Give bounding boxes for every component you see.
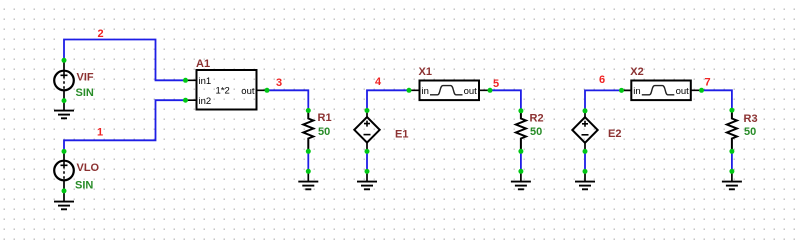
svg-text:R1: R1 [318, 112, 332, 124]
svg-text:out: out [464, 86, 478, 97]
svg-text:7: 7 [705, 76, 711, 88]
svg-text:R2: R2 [530, 113, 544, 125]
svg-text:3: 3 [276, 77, 282, 89]
wire net 4: E1 to X1 in [367, 90, 409, 110]
wire: E2 bottom to ground [584, 151, 586, 171]
svg-text:A1: A1 [196, 58, 210, 70]
ground (E1) [357, 171, 377, 189]
svg-text:SIN: SIN [76, 87, 94, 99]
pin terminal dots [62, 58, 735, 194]
voltage source VLO [54, 151, 74, 191]
controlled source E1 [354, 111, 379, 152]
wire net 2: VIF top to A1 in1 [64, 40, 186, 81]
svg-text:50: 50 [530, 126, 542, 138]
wire net 5: X1 out to R2 [490, 90, 521, 111]
svg-text:VLO: VLO [77, 162, 100, 174]
svg-text:R3: R3 [744, 113, 758, 125]
wire net 6: E2 to X2 in [585, 90, 622, 110]
wire net 7: X2 out to R3 [702, 90, 732, 110]
ground (R3) [722, 171, 742, 189]
svg-text:1*2: 1*2 [216, 86, 230, 97]
svg-text:X1: X1 [419, 66, 432, 78]
svg-text:E2: E2 [608, 128, 621, 140]
svg-text:2: 2 [98, 28, 104, 40]
ground (VLO) [54, 191, 74, 209]
svg-text:50: 50 [318, 126, 330, 138]
svg-text:in1: in1 [199, 76, 212, 87]
wire net 1: VLO top to A1 in2 [64, 100, 186, 151]
resistor R3 [727, 110, 737, 151]
svg-text:X2: X2 [630, 66, 643, 78]
svg-text:out: out [676, 86, 690, 97]
ground (VIF) [54, 101, 74, 119]
ground (R1) [298, 171, 318, 189]
wire: R1 bottom to ground [307, 151, 309, 171]
resistor R2 [516, 111, 526, 152]
wire: R3 bottom to ground [731, 151, 733, 171]
controlled source E2 [572, 111, 597, 152]
svg-text:E1: E1 [395, 129, 408, 141]
svg-text:6: 6 [599, 74, 605, 86]
svg-text:out: out [241, 86, 255, 97]
svg-text:in2: in2 [199, 96, 212, 107]
svg-text:4: 4 [375, 76, 382, 88]
svg-text:SIN: SIN [75, 179, 93, 191]
svg-text:in: in [422, 86, 429, 97]
subcircuit block X2 [622, 81, 702, 101]
ground (E2) [575, 171, 595, 189]
svg-text:1: 1 [97, 126, 103, 138]
svg-text:50: 50 [744, 126, 756, 138]
multiplier block A1 [186, 70, 268, 110]
svg-text:VIF: VIF [77, 72, 94, 84]
subcircuit block X1 [409, 81, 490, 101]
svg-text:in: in [633, 86, 640, 97]
svg-text:5: 5 [493, 78, 499, 90]
voltage source VIF [54, 60, 74, 101]
wire net 3: A1 out to R1 [267, 90, 308, 110]
wire: E1 bottom to ground [366, 151, 368, 171]
ground (R2) [511, 171, 531, 189]
wire: R2 bottom to ground [520, 151, 522, 171]
resistor R1 [303, 111, 313, 152]
